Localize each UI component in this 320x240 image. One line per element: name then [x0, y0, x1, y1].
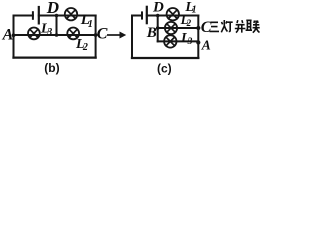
circuit (b): wire top-left segment — [14, 15, 33, 17]
hanzi SAN (three) — [210, 22, 220, 31]
battery (b) short plate — [32, 12, 34, 19]
lamp L3 (c) circle — [164, 35, 176, 47]
lamp L1 (b) cross — [67, 10, 76, 19]
hanzi LIAN (connect) — [246, 20, 260, 32]
node dot B junction (c) — [156, 26, 160, 30]
battery (c) short plate — [141, 12, 143, 18]
svg-text:2: 2 — [186, 18, 192, 28]
circuit (c): wire bottom edge — [132, 57, 198, 59]
circuit (c): branch wire row L2 — [158, 27, 199, 29]
svg-text:C: C — [97, 25, 108, 42]
node dot C (c) — [196, 26, 200, 30]
hanzi DENG (lamp) — [221, 20, 232, 32]
lamp L2 (c) circle — [165, 22, 177, 34]
circuit (c): wire right edge — [197, 16, 199, 59]
lamp L3 (b) cross — [30, 29, 38, 37]
node dot D bottom junction (b) — [55, 33, 59, 37]
svg-text:A: A — [2, 27, 14, 44]
arrow from (b) to (c) — [107, 32, 126, 39]
svg-text:2: 2 — [82, 42, 88, 53]
circuit (b): wire left edge — [13, 16, 15, 58]
svg-text:D: D — [152, 0, 164, 16]
circuit (c): wire top-right segment — [147, 15, 199, 17]
svg-text:3: 3 — [187, 37, 193, 47]
node dot D top (b) — [55, 14, 59, 18]
circuit (b): wire from D down to middle branch — [56, 16, 58, 36]
svg-text:B: B — [146, 25, 157, 41]
svg-text:1: 1 — [192, 5, 197, 16]
svg-text:3: 3 — [46, 27, 52, 38]
lamp L3 (b) circle — [28, 28, 40, 40]
lamp L2 (c) cross — [167, 24, 175, 32]
svg-text:D: D — [46, 0, 59, 17]
lamp L2 (b) cross — [69, 29, 77, 37]
hanzi BING (parallel) — [235, 20, 246, 32]
lamp L1 (c) circle — [167, 8, 179, 20]
circuit (c): wire from D down to L3 branch — [157, 16, 159, 42]
node dot A (c) — [196, 40, 200, 44]
circuit (b): wire bottom edge — [14, 56, 96, 58]
circuit (b): middle wire A to C — [14, 34, 96, 36]
circuit (b): wire right edge — [95, 16, 97, 58]
svg-text:A: A — [201, 38, 211, 53]
circuit (c): wire top-left segment — [132, 15, 142, 17]
svg-text:C: C — [201, 19, 212, 36]
node dot D (c) — [156, 14, 160, 18]
node dot C (b) — [94, 33, 98, 37]
lamp L3 (c) cross — [166, 37, 175, 46]
lamp L1 (b) circle — [65, 8, 77, 20]
circuit (c): branch wire row L3 — [158, 40, 199, 42]
circuit (c): wire left edge — [131, 16, 133, 59]
lamp L1 (c) cross — [169, 10, 178, 19]
node dot A (b) — [12, 33, 16, 37]
svg-text:(b): (b) — [44, 61, 59, 75]
lamp L2 (b) circle — [67, 28, 79, 40]
battery (c) long plate — [146, 7, 148, 23]
battery (b) long plate — [38, 7, 40, 23]
svg-text:1: 1 — [88, 19, 93, 30]
circuit (b): wire top-right segment — [39, 15, 96, 17]
svg-text:(c): (c) — [157, 62, 172, 76]
